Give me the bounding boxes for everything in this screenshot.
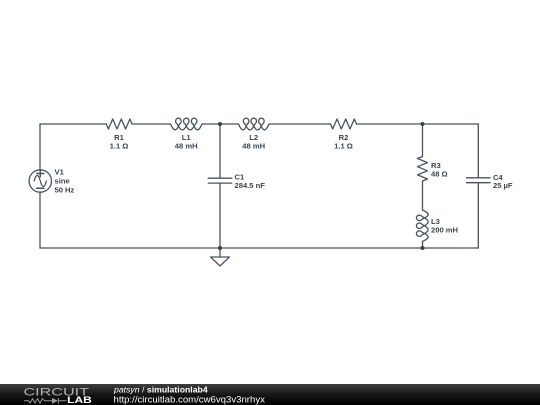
V1 sine wave bbox=[34, 175, 46, 186]
svg-text:284.5 nF: 284.5 nF bbox=[235, 181, 266, 190]
resistor R2 bbox=[331, 119, 357, 129]
resistor R3 bbox=[418, 157, 428, 182]
capacitor C1 plates bbox=[208, 178, 232, 183]
wire bottom horizontal bbox=[40, 247, 478, 249]
footer bar bbox=[0, 384, 540, 405]
wire right vertical top (C4 branch) bbox=[477, 124, 479, 178]
inductor L2 bbox=[239, 118, 270, 130]
node at L3 bottom bbox=[421, 246, 425, 250]
svg-text:25 µF: 25 µF bbox=[493, 181, 513, 190]
node at C1 top bbox=[218, 122, 222, 126]
wire top-left horizontal bbox=[40, 123, 106, 125]
ground triangle bbox=[211, 257, 230, 266]
svg-text:200 mH: 200 mH bbox=[431, 226, 458, 235]
svg-text:1.1 Ω: 1.1 Ω bbox=[110, 142, 129, 151]
svg-text:patsyn / simulationlab4: patsyn / simulationlab4 bbox=[113, 385, 208, 395]
V1 plus sign bbox=[37, 170, 44, 176]
logo diode triangle bbox=[52, 398, 58, 404]
svg-text:sine: sine bbox=[55, 177, 70, 186]
V1 minus sign bbox=[37, 187, 44, 189]
wire L2 to R2 bbox=[269, 123, 331, 125]
wire L3 to bottom bbox=[422, 242, 424, 249]
wire left vertical (V1 branch) bbox=[39, 124, 41, 170]
node at R3 top bbox=[421, 122, 425, 126]
capacitor C4 plates bbox=[467, 178, 491, 183]
wire C1 bottom bbox=[219, 183, 221, 248]
svg-text:48 mH: 48 mH bbox=[242, 142, 265, 151]
ground stub bbox=[219, 248, 221, 257]
wire V1 bottom to bottom-left corner bbox=[39, 192, 41, 248]
wire R2 to top-right corner bbox=[357, 123, 479, 125]
wire R3 branch top bbox=[422, 124, 424, 157]
inductor L1 bbox=[171, 118, 203, 130]
logo wire squiggle bbox=[24, 398, 67, 404]
inductor L3 bbox=[417, 210, 429, 242]
svg-text:48 Ω: 48 Ω bbox=[431, 170, 448, 179]
wire C1 branch top bbox=[219, 124, 221, 178]
wire C4 bottom bbox=[477, 183, 479, 248]
svg-text:50 Hz: 50 Hz bbox=[55, 186, 75, 195]
node at ground junction bbox=[218, 246, 222, 250]
svg-text:LAB: LAB bbox=[67, 395, 92, 405]
voltage source V1 bbox=[29, 170, 51, 192]
wire R3 to L3 bbox=[422, 181, 424, 210]
svg-text:http://circuitlab.com/cw6vq3v3: http://circuitlab.com/cw6vq3v3nrhyx bbox=[114, 395, 266, 405]
resistor R1 bbox=[106, 119, 132, 129]
wire L1 to L2 through node bbox=[202, 123, 239, 125]
svg-text:48 mH: 48 mH bbox=[175, 142, 198, 151]
wire R1 to L1 bbox=[132, 123, 171, 125]
svg-text:V1: V1 bbox=[55, 168, 65, 177]
svg-text:1.1 Ω: 1.1 Ω bbox=[334, 142, 353, 151]
